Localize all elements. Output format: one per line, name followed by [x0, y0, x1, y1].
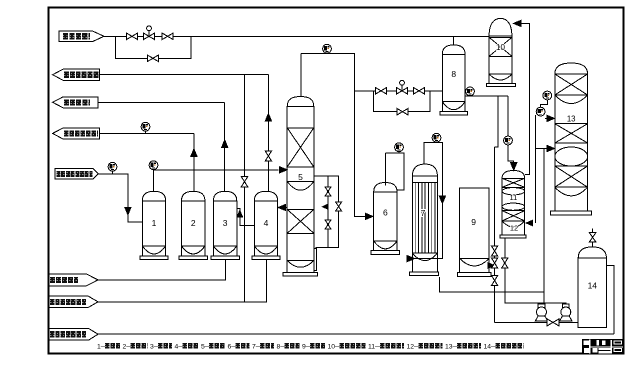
- valve mid-vertical: [241, 177, 248, 187]
- flag label steam-from-boiler (in): [59, 31, 104, 42]
- flow arrow from vessel9: [488, 263, 494, 268]
- valve cluster-r: [502, 258, 508, 268]
- wire manifold2 main: [354, 90, 442, 92]
- valve loop-a: [325, 187, 331, 196]
- svg-text:12: 12: [510, 224, 518, 233]
- instrument vessel8 outlet: [466, 87, 475, 96]
- control valve steam: [143, 33, 154, 40]
- flow arrow into vessel 4 side: [278, 204, 286, 210]
- flow arrow into vessel 6: [365, 213, 373, 219]
- wire riser vessel 3: [224, 102, 226, 192]
- vessel 4 saturator: [254, 191, 277, 201]
- instrument vessel7: [432, 133, 441, 142]
- instrument col13 upper: [543, 91, 552, 100]
- valve cluster-l2: [492, 258, 498, 268]
- svg-text:1: 1: [152, 218, 157, 228]
- valve cluster-l3: [492, 276, 498, 286]
- flow arrow into column 5: [280, 167, 288, 173]
- wire boiler-blowdown line: [98, 101, 225, 103]
- instrument vessel6: [395, 143, 404, 152]
- wire desalted-water line: [98, 260, 267, 302]
- valve riser-4: [265, 151, 272, 161]
- svg-text:14: 14: [588, 281, 598, 291]
- wire shift-gas run: [606, 266, 614, 335]
- valve m2-1: [375, 88, 386, 95]
- vessel 3 saturator: [213, 191, 236, 201]
- valve vent vessel14: [592, 229, 594, 248]
- valve cluster-l1: [492, 246, 498, 256]
- wire manifold2 bypass: [373, 91, 429, 112]
- valve steam-2: [162, 33, 173, 40]
- vessel 6: [374, 183, 397, 193]
- vessel 9: [460, 188, 489, 259]
- column 13 absorber: [555, 63, 588, 74]
- wire semi-water-gas feed: [98, 174, 142, 222]
- wire column5 top stem: [300, 53, 302, 96]
- svg-text:11: 11: [510, 193, 518, 202]
- column 5 washing tower: [287, 97, 314, 107]
- flow arrow into col13 lower: [547, 145, 555, 151]
- vessel 7 tubular exchanger: [412, 164, 437, 176]
- wire vessel8 outlet: [465, 96, 508, 323]
- wire vessel7 top loop: [415, 143, 443, 259]
- svg-text:2: 2: [191, 218, 196, 228]
- flow arrow into vessel 11: [511, 163, 517, 171]
- flag label shift-gas-out: [49, 329, 99, 340]
- svg-text:11—: 11—: [368, 343, 382, 350]
- flow arrow small loop: [323, 204, 329, 209]
- vessel 14 storage tank: [578, 247, 606, 258]
- vessel 10 humidifier: [489, 18, 512, 36]
- valve bottom line: [547, 319, 559, 326]
- flow arrow up riser-2: [191, 149, 197, 157]
- valve m2-bypass: [397, 108, 408, 115]
- wire column5 right valve loop: [314, 176, 339, 248]
- wire shift-gas bottom line: [98, 333, 614, 335]
- wire bottom pump header: [495, 321, 579, 323]
- instrument on bridge: [323, 44, 332, 53]
- instrument on header: [149, 161, 158, 170]
- instrument on feed line: [108, 162, 117, 171]
- flow arrow down feed: [125, 207, 131, 215]
- flow arrow into col13 upper: [547, 115, 555, 121]
- wire vessel3-vessel4 jog: [237, 209, 255, 226]
- pump P2: [562, 304, 569, 308]
- flow arrow down v7-loop: [439, 196, 445, 204]
- svg-text:8: 8: [451, 69, 456, 79]
- flag label waste-steam-out: [53, 128, 100, 139]
- wire circulating-water line: [98, 260, 226, 280]
- flag label boiler-blowdown-out: [53, 97, 98, 108]
- wire vessel 1 stem: [153, 170, 155, 192]
- flag label softwater-out: [53, 69, 100, 80]
- wire waste-steam line: [100, 132, 194, 134]
- flag label desalted-water-in: [49, 296, 99, 308]
- valve loop-c: [336, 202, 342, 211]
- svg-text:5: 5: [298, 172, 303, 182]
- instrument FI on waste-steam line: [141, 122, 150, 131]
- instrument above vessel 11: [504, 136, 513, 145]
- vessel 8: [442, 45, 465, 55]
- wire vessel-8 steam stem: [453, 36, 455, 45]
- wire vessel6 top loop: [385, 153, 404, 190]
- flow arrow up riser-4: [265, 114, 271, 122]
- wire into vessel12 right: [532, 222, 533, 224]
- wire instrument drop line: [536, 115, 548, 223]
- title block: [582, 339, 623, 354]
- svg-text:7: 7: [421, 208, 426, 218]
- wire column5 side to vessel4: [285, 207, 288, 209]
- instrument col13 lower: [536, 107, 545, 116]
- wire feed vessel10 top: [522, 23, 530, 174]
- flow arrow up riser-3: [222, 140, 228, 148]
- flow arrow into vessel7 bottom: [407, 256, 415, 262]
- svg-text:3: 3: [223, 218, 228, 228]
- valve m2-2: [413, 88, 424, 95]
- wire vertical line with valve (water seal): [244, 75, 246, 302]
- wire steam main header: [104, 35, 489, 37]
- pump P1: [538, 304, 545, 308]
- flow arrow into vessel 12: [526, 220, 533, 226]
- wire bridge column5 to right: [301, 53, 366, 216]
- svg-text:10: 10: [496, 43, 505, 52]
- wire softwater line: [100, 74, 269, 76]
- flag label circulating-water-in: [49, 274, 99, 286]
- wire valve-cluster right line: [505, 238, 566, 305]
- wire riser vessel 2: [193, 133, 195, 191]
- wire exchanger to pump line: [439, 149, 544, 305]
- svg-text:9: 9: [471, 217, 476, 227]
- wire riser to vessel 4 top: [267, 75, 269, 192]
- flow arrow into vessel10: [514, 20, 522, 26]
- vessel 2 saturator: [182, 191, 205, 201]
- wire to instrument chain v11: [508, 96, 514, 167]
- valve steam-1: [126, 33, 137, 40]
- svg-text:6: 6: [383, 208, 388, 218]
- control valve m2: [396, 88, 407, 95]
- wire steam bypass loop: [116, 36, 191, 58]
- wire gas header to column 5: [154, 169, 279, 171]
- valve steam-bypass: [147, 55, 158, 62]
- flag label semi-water-gas-in: [55, 169, 98, 180]
- wire vessel9 bottom out: [489, 265, 490, 267]
- flow arrow up jog: [237, 211, 243, 218]
- vessel 1 saturator: [142, 191, 165, 201]
- svg-text:4: 4: [264, 218, 269, 228]
- valve loop-b: [325, 220, 331, 229]
- svg-text:13: 13: [567, 115, 576, 124]
- vessels 11 and 12 stacked scrubbers: [502, 171, 525, 179]
